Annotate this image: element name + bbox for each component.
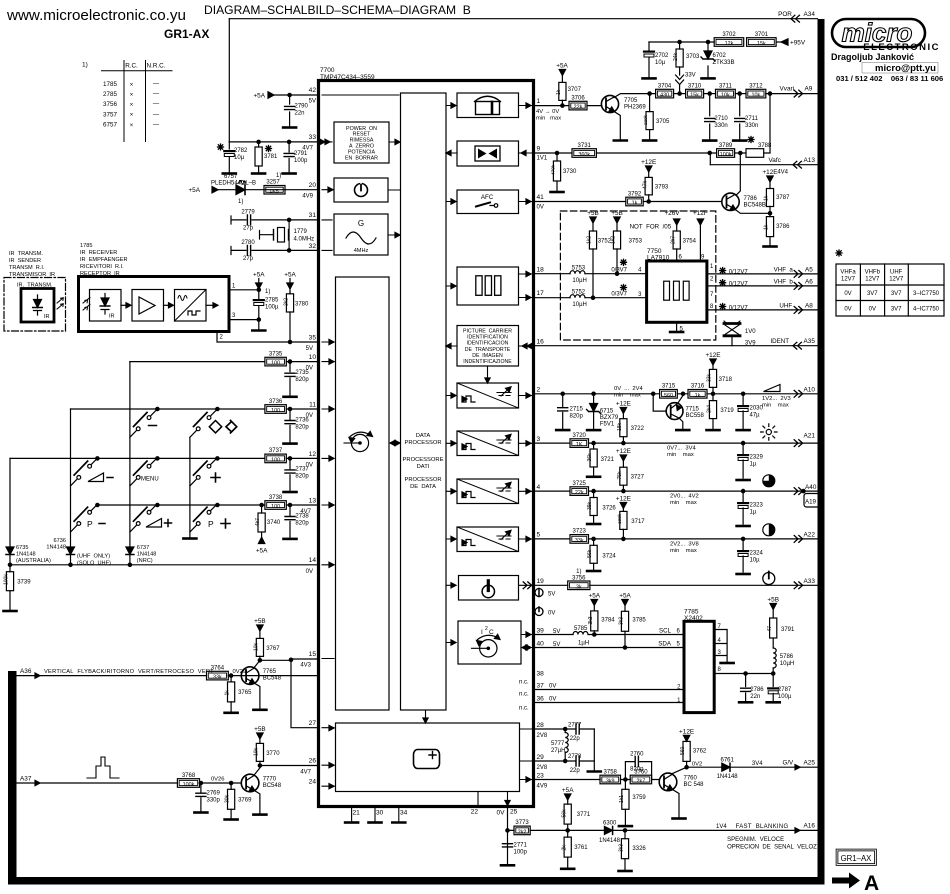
svg-text:2k4: 2k4	[707, 405, 713, 413]
IC U7700 outline	[319, 81, 534, 807]
resistor R3718	[712, 365, 714, 394]
svg-text:SCL: SCL	[659, 628, 672, 635]
sandcastle icon	[87, 757, 119, 778]
LED D6757	[236, 185, 245, 195]
A21 terminal	[794, 440, 802, 447]
svg-text:4: 4	[537, 484, 541, 491]
inductor L5752	[534, 297, 647, 299]
svg-text:1k: 1k	[632, 201, 638, 207]
svg-text:FAST BLANKING: FAST BLANKING	[736, 824, 789, 830]
svg-text:3326: 3326	[632, 846, 646, 852]
svg-text:4.0MHz: 4.0MHz	[294, 237, 315, 243]
svg-text:(UHF ONLY): (UHF ONLY)	[77, 554, 110, 560]
svg-text:PICTURE CARRIER: PICTURE CARRIER	[463, 329, 512, 335]
svg-text:3735: 3735	[269, 351, 283, 357]
capacitor C2779	[231, 216, 319, 224]
svg-text:10k: 10k	[254, 642, 260, 651]
svg-text:1k: 1k	[764, 195, 770, 201]
svg-text:+5A: +5A	[253, 272, 265, 279]
svg-text:100p: 100p	[294, 158, 308, 164]
svg-text:A40: A40	[805, 484, 817, 491]
svg-text:3725: 3725	[573, 481, 587, 487]
wire pin3 brightness line	[534, 442, 818, 444]
svg-text:10µH: 10µH	[780, 661, 794, 667]
resistor R3723	[570, 535, 589, 544]
svg-text:PLEDH544CL–B: PLEDH544CL–B	[211, 181, 256, 187]
osd bottom rail	[478, 792, 508, 807]
resistor R3722	[622, 413, 624, 443]
svg-text:34: 34	[400, 810, 408, 817]
svg-text:20: 20	[309, 182, 317, 189]
svg-text:GR1-AX: GR1-AX	[164, 27, 209, 41]
svg-text:36: 36	[537, 696, 545, 703]
svg-text:IR RECEIVER: IR RECEIVER	[80, 250, 117, 256]
svg-text:12V7: 12V7	[889, 277, 904, 283]
resistor R3720	[570, 439, 589, 448]
svg-text:5V: 5V	[548, 592, 555, 598]
svg-text:3752: 3752	[598, 239, 612, 245]
switch vol plus	[130, 503, 172, 532]
resistor R3727	[622, 461, 624, 492]
dac block 1	[457, 383, 519, 408]
svg-text:+12E: +12E	[762, 169, 777, 176]
capacitor C2702	[648, 42, 650, 77]
arrow shaper out	[206, 304, 217, 306]
svg-text:8: 8	[718, 667, 722, 673]
svg-text:3723: 3723	[573, 529, 587, 535]
svg-text:0/12V7: 0/12V7	[729, 269, 749, 275]
svg-text:3791: 3791	[781, 627, 795, 633]
wire A37 sandcastle	[17, 782, 242, 784]
A10 terminal	[794, 390, 802, 397]
svg-text:3764: 3764	[211, 665, 225, 671]
svg-text:SPEGNIM. VELOCE: SPEGNIM. VELOCE	[727, 837, 784, 843]
svg-text:3: 3	[537, 436, 541, 443]
sine wave	[346, 232, 376, 244]
emitter wire	[673, 790, 679, 817]
svg-text:3780: 3780	[295, 302, 309, 308]
svg-text:27: 27	[309, 720, 317, 727]
svg-text:+5B: +5B	[254, 618, 266, 625]
wire IDENT A35	[534, 345, 818, 347]
svg-text:42: 42	[309, 87, 317, 94]
svg-text:1: 1	[232, 284, 236, 290]
svg-text:47k: 47k	[642, 180, 648, 189]
svg-text:—: —	[153, 111, 160, 118]
capacitor C2323	[742, 491, 744, 524]
svg-text:22k: 22k	[575, 490, 584, 496]
svg-text:+5A: +5A	[589, 593, 601, 600]
svg-text:2323: 2323	[750, 503, 764, 509]
svg-text:4V9: 4V9	[537, 784, 548, 790]
svg-text:4: 4	[638, 268, 642, 274]
resistor R3787	[769, 182, 771, 214]
svg-text:0V: 0V	[548, 611, 555, 617]
node	[704, 93, 716, 95]
resistor R3756	[568, 581, 590, 590]
capacitor C2738	[288, 503, 291, 506]
svg-text:3762: 3762	[693, 749, 707, 755]
collector wire	[254, 768, 260, 776]
inductor L5786	[773, 648, 776, 668]
svg-text:3740: 3740	[267, 520, 281, 526]
svg-text:15: 15	[309, 651, 317, 658]
svg-text:2: 2	[537, 387, 541, 394]
svg-text:LA7910: LA7910	[647, 255, 670, 262]
meter icon	[476, 102, 500, 115]
crystal X1779	[288, 220, 290, 251]
svg-text:2k7: 2k7	[637, 779, 646, 785]
option dashed box	[560, 211, 715, 340]
svg-text:7765: 7765	[263, 669, 277, 675]
svg-text:820p: 820p	[295, 377, 309, 383]
svg-text:27µH: 27µH	[551, 748, 565, 754]
svg-text:5V: 5V	[553, 642, 560, 648]
svg-text:Dragoljub Janković: Dragoljub Janković	[831, 52, 914, 62]
svg-text:×: ×	[130, 92, 134, 99]
ground	[252, 173, 265, 175]
star levels pin3	[621, 285, 627, 291]
capacitor C2737	[288, 457, 291, 460]
pin8 wire	[714, 673, 773, 675]
resistor R3730	[556, 153, 558, 191]
pin5 ground	[676, 322, 678, 331]
svg-text:3773: 3773	[515, 820, 529, 826]
svg-text:DE TRANSPORTE: DE TRANSPORTE	[465, 347, 511, 353]
svg-text:56k: 56k	[561, 809, 567, 818]
legend table text	[840, 270, 939, 313]
svg-text:F5V1: F5V1	[600, 422, 615, 428]
mute block	[457, 141, 519, 166]
capacitor C2791	[288, 142, 290, 172]
svg-text:+12E: +12E	[641, 159, 656, 166]
svg-text:2324: 2324	[750, 551, 764, 557]
wire pin2 volume line	[534, 393, 818, 395]
svg-text:DATI: DATI	[417, 464, 430, 470]
right stubs pins 7 4 3	[714, 630, 727, 662]
svg-text:www.microelectronic.co.yu: www.microelectronic.co.yu	[6, 7, 186, 24]
svg-text:3727: 3727	[631, 475, 645, 481]
svg-text:1µH: 1µH	[578, 641, 589, 647]
wire to pin26	[260, 765, 319, 767]
wire pin14 row	[10, 564, 319, 566]
svg-text:2777: 2777	[568, 723, 582, 729]
band bars icon	[664, 281, 670, 300]
svg-text:3720: 3720	[573, 433, 587, 439]
wire POR down to reset node	[228, 19, 230, 142]
svg-text:2737: 2737	[295, 467, 309, 473]
resistor R3789	[717, 149, 735, 158]
svg-text:A33: A33	[804, 578, 816, 585]
ir receiver box U1785	[79, 277, 230, 332]
capacitor C2780	[231, 247, 319, 255]
svg-text:0V: 0V	[306, 569, 313, 575]
svg-text:+12E: +12E	[679, 728, 694, 735]
svg-text:0V: 0V	[537, 205, 544, 211]
svg-text:5V: 5V	[309, 99, 316, 105]
svg-text:3768: 3768	[182, 773, 196, 779]
svg-text:A34: A34	[804, 11, 816, 18]
A40 terminal	[794, 488, 802, 495]
svg-text:3702: 3702	[722, 32, 736, 38]
svg-text:6737: 6737	[137, 545, 149, 551]
svg-text:330n: 330n	[745, 123, 758, 129]
svg-text:3711: 3711	[719, 83, 733, 89]
svg-text:10µH: 10µH	[572, 302, 586, 308]
bars icon	[476, 276, 482, 296]
wire pin12 row	[10, 457, 319, 459]
svg-text:X2402: X2402	[684, 615, 703, 622]
node	[257, 140, 260, 143]
resistor R3760	[630, 775, 651, 784]
mute icon	[475, 146, 500, 161]
diode D6761	[722, 763, 730, 771]
svg-text:100µ: 100µ	[778, 694, 792, 700]
resistor R3773	[514, 826, 530, 835]
svg-text:33V: 33V	[685, 73, 696, 79]
saturation icon	[763, 475, 775, 487]
svg-text:micro@ptt.yu: micro@ptt.yu	[875, 63, 936, 74]
svg-text:GR1–AX: GR1–AX	[841, 854, 873, 863]
svg-text:330p: 330p	[207, 798, 221, 804]
svg-text:×: ×	[130, 81, 134, 88]
svg-text:7700: 7700	[320, 67, 335, 74]
svg-text:0/3V7: 0/3V7	[611, 267, 627, 273]
svg-text:A10: A10	[804, 386, 816, 393]
svg-text:1): 1)	[576, 569, 581, 575]
resistor R3717	[622, 508, 624, 539]
collector wire	[254, 660, 260, 668]
diode D6300	[604, 826, 612, 834]
star levels pin4	[621, 259, 627, 265]
svg-text:4k7: 4k7	[255, 518, 261, 526]
resistor R3788	[735, 152, 770, 154]
svg-text:3757: 3757	[103, 111, 118, 118]
column wire C0	[9, 458, 11, 546]
svg-text:25: 25	[510, 809, 518, 816]
svg-text:36k: 36k	[587, 453, 593, 462]
oscillator block	[334, 214, 388, 255]
power-on-reset block	[334, 122, 389, 163]
svg-text:ZTK33B: ZTK33B	[713, 60, 735, 66]
switch P plus	[190, 503, 230, 532]
svg-text:12V7: 12V7	[841, 277, 856, 283]
svg-text:3721: 3721	[601, 457, 615, 463]
micro logo stadium	[832, 19, 925, 47]
resistor R3765	[229, 674, 232, 677]
wire pin28	[534, 728, 594, 730]
svg-text:100: 100	[271, 408, 280, 414]
svg-text:2: 2	[485, 626, 488, 632]
svg-text:3717: 3717	[631, 519, 645, 525]
svg-text:4V3: 4V3	[300, 663, 311, 669]
svg-text:0/12V7: 0/12V7	[729, 281, 749, 287]
shaper diagonal	[175, 290, 207, 322]
node 33V junction	[678, 92, 681, 95]
svg-text:10k: 10k	[721, 93, 730, 99]
svg-text:820p: 820p	[570, 414, 584, 420]
svg-text:A9: A9	[805, 86, 813, 93]
node pin3	[257, 318, 260, 321]
transistor Q7705	[601, 95, 618, 112]
bus bar bottom	[8, 877, 825, 885]
wire vvari down to 3788	[769, 94, 771, 153]
resistor R3704	[656, 89, 674, 98]
svg-text:6300: 6300	[603, 820, 617, 826]
IC U7750	[647, 261, 707, 322]
svg-text:P: P	[208, 519, 214, 529]
arrow bus to osd	[425, 710, 427, 721]
resistor R3712	[746, 89, 766, 98]
capacitor C2769	[199, 781, 202, 784]
i2c icon	[480, 640, 497, 657]
wire A25	[687, 766, 818, 768]
svg-text:3704: 3704	[658, 83, 672, 89]
svg-text:3715: 3715	[662, 384, 676, 390]
svg-text:1µ: 1µ	[750, 462, 757, 468]
dac block 4	[457, 527, 519, 552]
svg-text:DE DATA: DE DATA	[410, 484, 436, 490]
resistor R3770	[259, 739, 261, 766]
svg-text:470k: 470k	[551, 164, 556, 175]
svg-text:3707: 3707	[568, 87, 582, 93]
supply +5A right	[289, 279, 291, 292]
node	[287, 218, 290, 221]
svg-text:A8: A8	[805, 302, 813, 309]
svg-text:2780: 2780	[241, 240, 255, 246]
resonator symbol	[724, 322, 740, 325]
pin number labels	[638, 255, 714, 333]
svg-text:1N4148: 1N4148	[137, 552, 157, 558]
svg-text:6757: 6757	[103, 121, 118, 128]
svg-text:1): 1)	[276, 173, 281, 179]
emitter wire	[255, 791, 260, 813]
emitter wire	[736, 210, 770, 213]
A22 terminal	[794, 536, 802, 543]
svg-text:3759: 3759	[632, 795, 646, 801]
bidir arrow between blocks	[391, 442, 399, 444]
column wire C1	[70, 409, 72, 546]
svg-text:+5B: +5B	[767, 597, 779, 604]
svg-text:33k: 33k	[213, 675, 222, 681]
svg-text:2785: 2785	[265, 298, 279, 304]
svg-text:+12E: +12E	[616, 448, 631, 455]
svg-text:3k3: 3k3	[619, 844, 625, 852]
wire pin25 down	[507, 807, 509, 864]
svg-text:3712: 3712	[749, 83, 763, 89]
transistor Q7765	[241, 667, 259, 685]
svg-text:2710: 2710	[714, 116, 728, 122]
svg-text:430: 430	[660, 93, 669, 99]
resistor R3725	[570, 487, 589, 496]
svg-text:IDENTIFICATION: IDENTIFICATION	[467, 335, 508, 341]
node	[257, 288, 260, 291]
svg-text:3756: 3756	[103, 101, 118, 108]
wire SCL line	[534, 634, 684, 636]
svg-text:+5A: +5A	[188, 187, 200, 194]
node on pin35 wire	[288, 340, 291, 343]
resistor R3726	[593, 491, 595, 522]
svg-text:28: 28	[537, 722, 545, 729]
svg-text:100: 100	[271, 458, 280, 464]
svg-text:—: —	[153, 121, 160, 128]
resistor R3762	[686, 741, 688, 767]
svg-text:3V7: 3V7	[867, 291, 878, 297]
svg-text:5777: 5777	[551, 741, 565, 747]
supply +5A below 3740	[258, 537, 264, 543]
wire VHFb A6	[707, 285, 818, 287]
svg-text:33: 33	[309, 134, 317, 141]
contrast icon	[763, 524, 775, 536]
arrow diode to amp	[121, 304, 130, 306]
resistor R3326	[624, 830, 626, 869]
svg-text:3k3: 3k3	[619, 617, 625, 625]
svg-text:820p: 820p	[630, 767, 644, 773]
svg-text:IR EMPFAENGER: IR EMPFAENGER	[80, 257, 128, 263]
GR1-AX bottom box	[837, 850, 876, 865]
svg-text:27p: 27p	[243, 256, 254, 262]
svg-text:3754: 3754	[683, 239, 697, 245]
svg-text:22n: 22n	[750, 694, 760, 700]
resistor R3735	[265, 357, 286, 366]
svg-text:5752: 5752	[572, 289, 586, 295]
svg-text:2702: 2702	[655, 53, 669, 59]
svg-text:min max: min max	[670, 548, 697, 554]
svg-text:820p: 820p	[295, 474, 309, 480]
svg-text:3V7: 3V7	[891, 291, 902, 297]
svg-text:DIAGRAM–SCHALBILD–SCHEMA–DIAGR: DIAGRAM–SCHALBILD–SCHEMA–DIAGRAM B	[204, 3, 471, 17]
svg-text:6: 6	[677, 629, 681, 635]
svg-text:+12E: +12E	[616, 496, 631, 503]
wire pin5 contrast line	[534, 538, 818, 540]
switch minus	[130, 407, 159, 437]
svg-text:2V2... 3V8: 2V2... 3V8	[670, 541, 699, 547]
svg-text:+12F: +12F	[693, 210, 708, 217]
svg-text:0V: 0V	[549, 684, 556, 690]
transistor Q7760	[659, 773, 677, 791]
photodiode symbol	[101, 294, 109, 315]
svg-text:×: ×	[130, 122, 134, 129]
svg-text:2: 2	[220, 335, 224, 341]
ir transm inner box	[21, 289, 54, 323]
svg-text:100µ: 100µ	[265, 305, 279, 311]
ir receiver labels	[80, 243, 128, 277]
svg-text:1): 1)	[82, 62, 88, 69]
pin2 wire to pin35	[217, 332, 319, 343]
svg-text:A21: A21	[804, 433, 816, 440]
svg-text:10µ: 10µ	[234, 155, 245, 161]
svg-text:1): 1)	[265, 289, 270, 295]
svg-text:EN BORRAR: EN BORRAR	[345, 155, 378, 161]
ir transm diode	[34, 295, 42, 315]
wire +5A to pin42	[272, 94, 319, 96]
supply +5A left	[258, 279, 260, 290]
emitter wire	[255, 684, 260, 709]
column wire C2	[129, 362, 131, 546]
svg-text:1785: 1785	[80, 243, 92, 249]
svg-text:n.c.: n.c.	[519, 706, 529, 712]
inductor L5777	[564, 729, 566, 761]
svg-text:39k: 39k	[587, 501, 593, 510]
svg-text:BC 548: BC 548	[684, 782, 705, 788]
svg-text:3786: 3786	[776, 224, 790, 230]
svg-text:3761: 3761	[574, 845, 588, 851]
svg-text:OPRECION DE SENAL VELOZ: OPRECION DE SENAL VELOZ	[727, 844, 817, 850]
svg-text:BZX79: BZX79	[600, 415, 619, 421]
svg-text:22k: 22k	[574, 105, 583, 111]
svg-text:A: A	[864, 872, 879, 894]
svg-text:100: 100	[271, 504, 280, 510]
